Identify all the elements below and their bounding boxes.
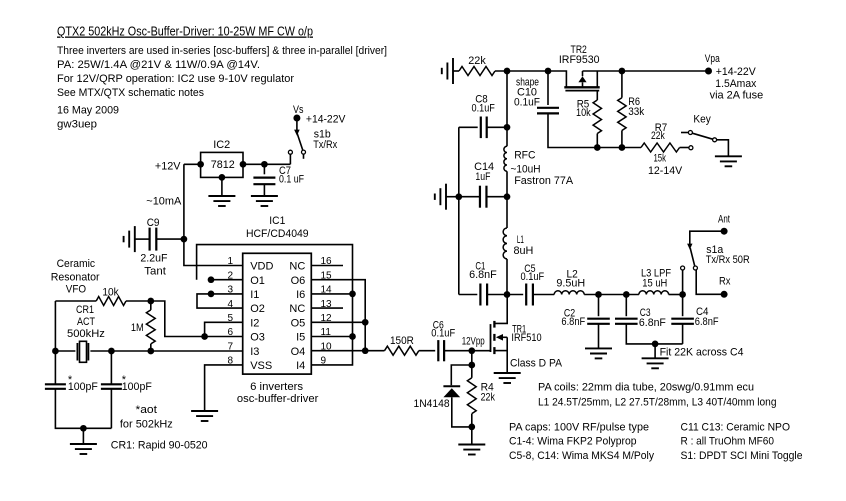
node pin10 on output bus xyxy=(362,347,369,354)
wire key to ground xyxy=(717,140,729,157)
svg-text:22k: 22k xyxy=(651,130,665,142)
svg-text:0.1uF: 0.1uF xyxy=(514,97,540,109)
wire to VFO ground xyxy=(82,428,84,444)
svg-text:15 uH: 15 uH xyxy=(642,277,667,289)
wire pin14 I6 xyxy=(311,293,352,295)
node R6 top xyxy=(619,68,626,75)
node pin3 junction xyxy=(208,291,215,298)
svg-text:IRF9530: IRF9530 xyxy=(559,54,600,66)
ground TR1 source xyxy=(494,372,521,374)
node pin11 on input bus xyxy=(349,333,356,340)
svg-text:O2: O2 xyxy=(250,303,265,315)
svg-text:VFO: VFO xyxy=(66,284,87,296)
node C8 right xyxy=(504,124,511,131)
svg-text:*aot: *aot xyxy=(136,404,158,416)
wire Ant to s1a arm xyxy=(690,231,724,245)
svg-text:I6: I6 xyxy=(296,289,305,301)
wire +12V rail down to IC1 VDD pin1 xyxy=(184,164,243,265)
svg-text:for 502kHz: for 502kHz xyxy=(120,418,173,430)
ground IC2 xyxy=(208,195,235,197)
wire pin11 I5 xyxy=(311,336,352,338)
ground C9 xyxy=(134,226,136,252)
svg-text:+12V: +12V xyxy=(155,161,181,173)
wire left ground rail xyxy=(458,127,460,294)
svg-text:IC2: IC2 xyxy=(213,139,230,151)
wire 10k/1M junction to pin6 O3 row xyxy=(151,301,243,337)
svg-text:I1: I1 xyxy=(250,289,259,301)
wire s1a Rx throw to Rx xyxy=(696,270,721,294)
wire key throw stub xyxy=(681,132,688,134)
svg-text:1N4148: 1N4148 xyxy=(414,398,450,410)
svg-text:9.5uH: 9.5uH xyxy=(556,277,585,289)
svg-text:0.1 uF: 0.1 uF xyxy=(279,173,304,185)
svg-text:10k: 10k xyxy=(576,107,591,119)
IC2 7812 regulator xyxy=(201,152,243,177)
svg-text:1uF: 1uF xyxy=(475,171,490,183)
ground 22k left xyxy=(452,58,454,84)
svg-text:100pF: 100pF xyxy=(122,381,152,393)
svg-text:QTX2 502kHz Osc-Buffer-Driver: QTX2 502kHz Osc-Buffer-Driver: 10-25W MF… xyxy=(57,24,313,39)
wire s1b unused throw stub xyxy=(303,154,305,159)
ground C7 xyxy=(251,195,278,197)
node 2nd 100pF top xyxy=(108,348,115,355)
wire s1b arm diagonal xyxy=(297,134,303,151)
svg-text:C11 C13: Ceramic NPO: C11 C13: Ceramic NPO xyxy=(681,422,791,434)
svg-text:Tx/Rx: Tx/Rx xyxy=(313,139,337,151)
wire TR1 source down to ground xyxy=(506,337,508,373)
svg-text:C5-8, C14: Wima MKS4 M/Poly: C5-8, C14: Wima MKS4 M/Poly xyxy=(509,450,654,462)
svg-text:I5: I5 xyxy=(296,332,305,344)
node Vs supply xyxy=(293,115,300,122)
svg-text:S1: DPDT SCI Mini Toggle: S1: DPDT SCI Mini Toggle xyxy=(681,450,803,462)
svg-text:100pF: 100pF xyxy=(68,381,98,393)
svg-text:500kHz: 500kHz xyxy=(67,328,105,340)
wire s1a arm diagonal xyxy=(690,248,695,266)
svg-text:PA: 25W/1.4A @21V & 11W/0.9A @: PA: 25W/1.4A @21V & 11W/0.9A @14V. xyxy=(57,59,260,71)
svg-text:PA caps: 100V RF/pulse type: PA caps: 100V RF/pulse type xyxy=(509,422,649,434)
resistor 10k xyxy=(55,300,96,302)
wire 22k to TR2 source xyxy=(495,71,566,87)
svg-text:Fastron 77A: Fastron 77A xyxy=(514,175,574,187)
node C3 top xyxy=(623,291,630,298)
svg-text:via 2A fuse: via 2A fuse xyxy=(710,89,764,101)
node C7 top xyxy=(261,161,268,168)
ground VFO xyxy=(70,443,97,445)
node C3/C4 gnd junction xyxy=(652,341,659,348)
svg-text:Vs: Vs xyxy=(293,104,304,116)
svg-text:+14-22V: +14-22V xyxy=(716,66,757,78)
wire pin3 I1 to pin4 O2 loop xyxy=(197,294,243,308)
wire IC2 output to C7 and s1b xyxy=(243,163,290,165)
svg-text:O3: O3 xyxy=(250,332,265,344)
svg-text:+14-22V: +14-22V xyxy=(306,113,346,125)
node Vpa xyxy=(705,68,712,75)
wire s1b left throw down to rail xyxy=(289,154,291,164)
wire pin15 O6 to output bus xyxy=(311,280,365,351)
svg-text:Fit 22K across C4: Fit 22K across C4 xyxy=(660,347,744,359)
svg-text:ACT: ACT xyxy=(77,316,95,328)
capacitor 100pF right xyxy=(110,351,112,384)
svg-text:Ant: Ant xyxy=(718,214,730,226)
svg-text:~10mA: ~10mA xyxy=(146,195,182,207)
capacitor 100pF left xyxy=(45,383,66,385)
node pin5/pin6 junction xyxy=(201,333,208,340)
node 1M bottom / crystal row xyxy=(147,348,154,355)
svg-text:O4: O4 xyxy=(291,346,306,358)
wire feedback loop left xyxy=(54,301,56,384)
node pin12 on output bus xyxy=(362,319,369,326)
svg-text:6.8nF: 6.8nF xyxy=(561,316,585,328)
svg-text:1.5Amax: 1.5Amax xyxy=(715,78,756,90)
ground C3/C4 xyxy=(642,357,669,359)
node 10k/1M junction xyxy=(147,298,154,305)
svg-text:See MTX/QTX schematic notes: See MTX/QTX schematic notes xyxy=(57,87,204,99)
node C4 top / antenna xyxy=(679,291,686,298)
wire pin13 NC stub xyxy=(311,307,343,309)
svg-text:gw3uep: gw3uep xyxy=(57,119,97,131)
wire pin16 NC stub xyxy=(311,265,343,267)
s1a arm arrowhead xyxy=(687,244,692,250)
ground Key xyxy=(715,155,742,157)
node crystal row left end xyxy=(52,348,59,355)
node C2 top xyxy=(595,291,602,298)
svg-text:2.2uF: 2.2uF xyxy=(140,253,167,265)
svg-text:NC: NC xyxy=(289,303,305,315)
crystal CR1 ceramic resonator 500kHz xyxy=(55,350,75,352)
node Rx xyxy=(721,291,728,298)
wire TR2 gate down to R5 xyxy=(596,91,598,100)
node R4/diode top xyxy=(468,362,475,369)
s1b arm arrowhead xyxy=(294,130,300,136)
TR2 substrate arrow xyxy=(578,76,586,82)
svg-text:Ceramic: Ceramic xyxy=(57,258,96,270)
node R4 bottom xyxy=(468,424,475,431)
svg-text:VSS: VSS xyxy=(250,360,272,372)
wire pin5 I2 elbow down xyxy=(205,322,243,336)
node pin14 on input bus xyxy=(349,291,356,298)
svg-text:1M: 1M xyxy=(131,322,144,334)
ground R4/diode xyxy=(458,444,485,446)
node pin2 junction xyxy=(208,276,215,283)
wire TR1 source xyxy=(494,350,507,352)
wire crystal row to IC1 pin7 I3 xyxy=(90,350,242,352)
node PA drain xyxy=(504,291,511,298)
svg-text:osc-buffer-driver: osc-buffer-driver xyxy=(237,393,319,405)
node C9 / +12V rail junction xyxy=(181,236,188,243)
svg-text:22k: 22k xyxy=(481,392,496,404)
TR1 substrate arrow xyxy=(496,334,503,341)
svg-text:6.8nF: 6.8nF xyxy=(469,269,497,281)
wire RFC to L1 xyxy=(506,171,508,228)
wire IC2 gnd pin xyxy=(221,177,223,196)
svg-text:~10uH: ~10uH xyxy=(511,164,541,176)
node 22k / C8 column xyxy=(504,68,511,75)
svg-text:VDD: VDD xyxy=(250,261,273,273)
svg-text:PA coils: 22mm dia tube, 20swg: PA coils: 22mm dia tube, 20swg/0.91mm ec… xyxy=(538,382,754,394)
svg-text:Tx/Rx 50R: Tx/Rx 50R xyxy=(706,254,750,266)
svg-text:Tant: Tant xyxy=(144,265,166,277)
svg-text:15k: 15k xyxy=(654,152,667,164)
svg-text:CR1: Rapid 90-0520: CR1: Rapid 90-0520 xyxy=(111,440,208,452)
svg-text:I3: I3 xyxy=(250,346,259,358)
svg-text:10k: 10k xyxy=(102,287,119,299)
svg-text:Key: Key xyxy=(693,113,711,125)
node IC2 output xyxy=(240,161,247,168)
transistor TR1 IRF510 xyxy=(490,324,492,352)
node R6 bottom on key rail xyxy=(619,144,626,151)
svg-text:R : all TruOhm MF60: R : all TruOhm MF60 xyxy=(681,436,775,448)
node C14 right xyxy=(504,193,511,200)
svg-text:I4: I4 xyxy=(296,360,305,372)
svg-text:0.1uF: 0.1uF xyxy=(431,328,455,340)
wire O1 top loop to input bus pins 14/11/9 xyxy=(197,245,353,365)
diode 1N4148 xyxy=(451,365,472,385)
node R5 bottom on key rail xyxy=(594,144,601,151)
svg-text:7812: 7812 xyxy=(211,159,235,171)
wire to driver ground xyxy=(471,427,473,445)
capacitor C9 xyxy=(135,238,150,240)
svg-text:6 inverters: 6 inverters xyxy=(250,381,304,393)
node bottom rail ground junction xyxy=(80,425,87,432)
wire pin10 O4 to 150R xyxy=(311,350,384,352)
wire 12Vpp node down xyxy=(471,351,473,365)
svg-text:C9: C9 xyxy=(147,217,160,229)
svg-text:IC1: IC1 xyxy=(269,215,285,227)
svg-text:O5: O5 xyxy=(291,317,306,329)
svg-text:8uH: 8uH xyxy=(514,245,534,257)
node IC2 input xyxy=(197,161,204,168)
svg-text:O1: O1 xyxy=(250,275,265,287)
svg-text:6.8nF: 6.8nF xyxy=(639,317,666,329)
svg-text:Resonator: Resonator xyxy=(51,271,100,283)
wire +12V to IC2 input xyxy=(184,163,201,165)
svg-text:33k: 33k xyxy=(628,106,644,118)
wire C10 bottom / key rail xyxy=(548,113,641,147)
wire key arm xyxy=(692,133,712,139)
svg-text:I2: I2 xyxy=(250,317,259,329)
wire s1a Tx throw down to C4 node xyxy=(682,270,684,295)
node IC2 gnd pin xyxy=(219,174,226,181)
wire pin8 VSS to ground xyxy=(205,365,243,411)
wire C3/C4 bottom rail xyxy=(626,324,682,344)
svg-text:Rx: Rx xyxy=(719,276,731,288)
capacitor C7 xyxy=(263,164,265,174)
svg-text:1: 1 xyxy=(227,256,233,267)
svg-text:12Vpp: 12Vpp xyxy=(462,336,485,348)
wire pin12 O5 xyxy=(311,321,365,323)
wire TR1 drain up to node xyxy=(494,295,507,324)
svg-text:For 12V/QRP operation: IC2 use: For 12V/QRP operation: IC2 use 9-10V reg… xyxy=(57,73,294,85)
node C14 left on gnd rail xyxy=(455,193,462,200)
wire TR2 drain lead xyxy=(596,71,598,87)
svg-text:C1-4: Wima FKP2 Polyprop: C1-4: Wima FKP2 Polyprop xyxy=(509,436,637,448)
node 12Vpp xyxy=(468,347,475,354)
svg-text:Vpa: Vpa xyxy=(705,53,721,65)
ground IC1 VSS xyxy=(191,410,218,412)
wire pin2 O1 xyxy=(211,279,243,281)
svg-text:Three inverters are used in-se: Three inverters are used in-series [osc-… xyxy=(57,45,387,57)
op-amp U1 : IC1 HCF/CD4049 hex inverter xyxy=(243,253,312,374)
wire 22k node down thru C8 node to RFC xyxy=(506,71,508,146)
ground C14 xyxy=(445,184,447,210)
svg-text:IRF510: IRF510 xyxy=(511,332,541,344)
node Ant xyxy=(721,228,728,235)
svg-text:RFC: RFC xyxy=(514,150,535,162)
svg-text:12-14V: 12-14V xyxy=(648,165,683,177)
svg-text:0.1uF: 0.1uF xyxy=(521,271,545,283)
node C10 top xyxy=(545,68,552,75)
svg-text:22k: 22k xyxy=(468,55,486,67)
ground C2 xyxy=(585,347,612,349)
wire TR2 to Vpa rail xyxy=(583,70,709,72)
svg-text:CR1: CR1 xyxy=(76,304,94,316)
svg-text:6.8nF: 6.8nF xyxy=(695,316,719,328)
svg-text:Class D PA: Class D PA xyxy=(510,358,563,370)
svg-text:L1 24.5T/25mm, L2 27.5T/28mm,: L1 24.5T/25mm, L2 27.5T/28mm, L3 40T/40m… xyxy=(538,397,777,409)
svg-text:16 May 2009: 16 May 2009 xyxy=(57,105,119,117)
svg-text:HCF/CD4049: HCF/CD4049 xyxy=(246,228,309,240)
svg-text:0.1uF: 0.1uF xyxy=(472,103,496,115)
svg-text:O6: O6 xyxy=(291,275,306,287)
wire s1b arm upper xyxy=(296,121,298,130)
svg-text:NC: NC xyxy=(289,261,305,273)
